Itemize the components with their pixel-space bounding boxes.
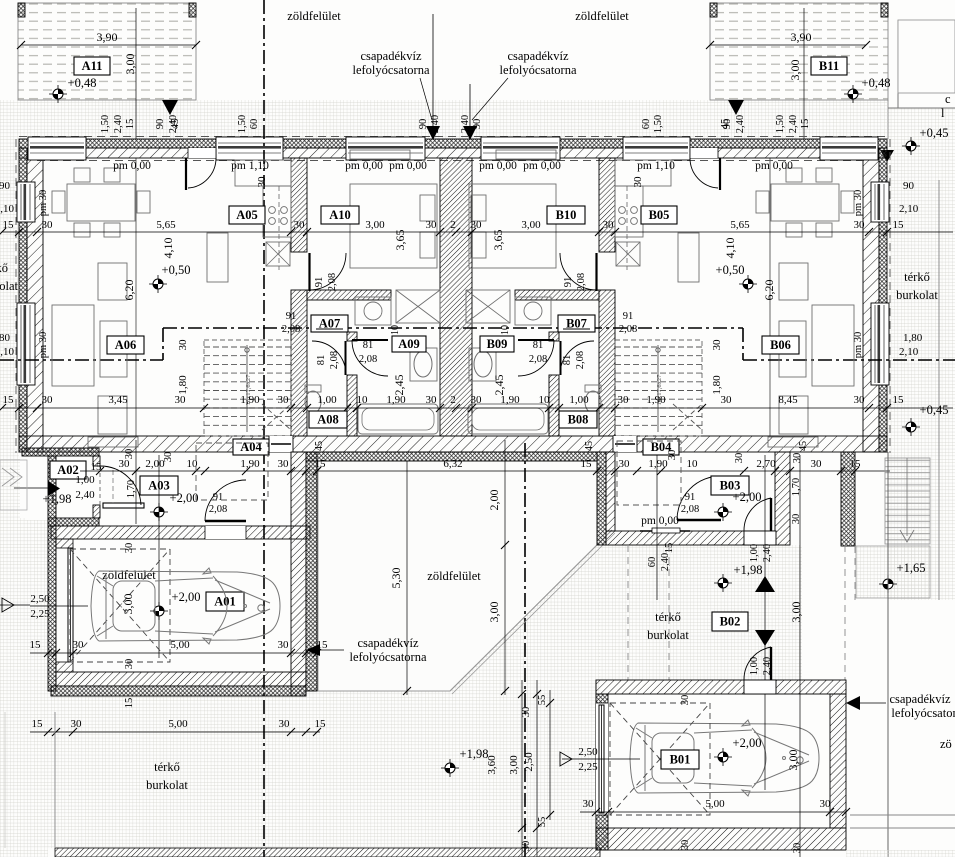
- window top wall A: [28, 137, 86, 160]
- car in garage B01: [630, 720, 819, 796]
- svg-text:2,08: 2,08: [359, 354, 377, 365]
- room label A03: [140, 476, 178, 495]
- svg-text:15: 15: [893, 219, 905, 231]
- room label B08: [559, 411, 597, 428]
- svg-text:55: 55: [537, 695, 548, 706]
- garage A door: [68, 548, 73, 662]
- room label B02: [712, 612, 748, 631]
- svg-text:2,50: 2,50: [30, 593, 50, 605]
- survey marker B01: [714, 748, 732, 766]
- stove A05: [269, 207, 276, 214]
- svg-text:2,45: 2,45: [392, 375, 406, 396]
- svg-text:3,00: 3,00: [487, 602, 501, 623]
- svg-text:1,90: 1,90: [646, 394, 666, 406]
- svg-text:30: 30: [294, 219, 306, 231]
- svg-text:45: 45: [584, 441, 595, 451]
- svg-text:pm 30: pm 30: [853, 332, 864, 359]
- garage B door: [596, 703, 608, 815]
- dim row garage B: [580, 798, 850, 816]
- svg-text:B01: B01: [670, 753, 691, 767]
- survey marker B02: [714, 574, 732, 592]
- svg-text:30: 30: [854, 219, 866, 231]
- svg-text:30: 30: [583, 798, 595, 810]
- svg-text:30: 30: [256, 176, 268, 188]
- svg-text:2,08: 2,08: [619, 324, 637, 335]
- svg-text:2,10: 2,10: [899, 203, 919, 215]
- overhang dashed line A02: [112, 470, 114, 503]
- svg-text:3,00: 3,00: [365, 219, 385, 231]
- svg-text:2,40: 2,40: [430, 115, 441, 133]
- svg-text:90: 90: [155, 119, 166, 130]
- window top wall B: [623, 137, 690, 160]
- svg-text:B05: B05: [649, 208, 670, 222]
- dim row courtyard: [313, 458, 890, 475]
- svg-text:1,00: 1,00: [75, 474, 95, 486]
- paved terrace B02: [599, 545, 802, 680]
- svg-text:1,00: 1,00: [317, 394, 337, 406]
- svg-text:15: 15: [32, 718, 44, 730]
- svg-text:30: 30: [820, 798, 832, 810]
- svg-text:lefolyócsatorna: lefolyócsatorna: [499, 63, 577, 77]
- svg-text:30: 30: [734, 453, 745, 464]
- svg-text:30: 30: [278, 394, 290, 406]
- svg-text:olat: olat: [0, 279, 19, 293]
- drain line B: [469, 84, 471, 139]
- svg-text:91: 91: [685, 492, 696, 503]
- svg-text:60: 60: [647, 557, 658, 568]
- terrace axis line B: [803, 8, 805, 139]
- svg-text:30: 30: [124, 659, 135, 670]
- leader line right drain: [472, 78, 508, 120]
- overhang dashed below top wall: [37, 160, 869, 162]
- svg-text:pm 0,00: pm 0,00: [113, 160, 151, 172]
- svg-text:2,00: 2,00: [487, 490, 501, 511]
- B block bottom wall: [606, 531, 775, 545]
- shower cross B09: [466, 290, 510, 323]
- washbasin B09: [474, 351, 492, 377]
- svg-text:+0,48: +0,48: [68, 76, 97, 90]
- svg-text:30: 30: [792, 843, 803, 854]
- survey marker B06: [739, 275, 757, 293]
- svg-text:pm 0,00: pm 0,00: [345, 160, 383, 172]
- svg-text:+1,98: +1,98: [43, 492, 72, 506]
- room label B07: [558, 315, 595, 332]
- svg-text:+0,50: +0,50: [162, 263, 191, 277]
- dimension row lower: [0, 394, 953, 412]
- room label B09: [480, 336, 514, 352]
- staircase B: [615, 340, 702, 436]
- svg-text:A06: A06: [115, 338, 137, 352]
- B block left wall: [597, 452, 606, 545]
- svg-text:+2,00: +2,00: [733, 736, 762, 750]
- svg-text:91: 91: [286, 311, 297, 322]
- entry arrow terrace A: [162, 100, 178, 115]
- svg-text:81: 81: [562, 355, 573, 366]
- room label A11: [74, 57, 110, 75]
- room label A05: [229, 206, 265, 224]
- diag boundary courtyard: [450, 530, 612, 691]
- garage door flag A: [2, 598, 14, 612]
- svg-text:45: 45: [798, 441, 809, 451]
- svg-text:2,08: 2,08: [575, 351, 586, 369]
- svg-text:1,70: 1,70: [126, 480, 137, 498]
- section line horizontal left: [0, 359, 163, 361]
- window right wall 1: [871, 182, 889, 222]
- cabinet X A05: [266, 242, 290, 266]
- garage A right wall: [291, 452, 306, 696]
- dim 2,00 3,00: [504, 440, 506, 695]
- svg-text:30: 30: [632, 176, 644, 188]
- svg-text:1,80: 1,80: [903, 332, 923, 344]
- svg-text:91: 91: [213, 492, 224, 503]
- svg-text:A01: A01: [214, 595, 236, 609]
- svg-text:90: 90: [0, 180, 11, 192]
- svg-text:A09: A09: [398, 337, 420, 351]
- survey marker A01: [150, 602, 168, 620]
- door A08: [345, 341, 347, 375]
- dim 5,30: [406, 461, 408, 695]
- svg-text:+2,00: +2,00: [733, 490, 762, 504]
- furniture unit B: [466, 150, 854, 447]
- drain line A: [432, 14, 434, 139]
- svg-text:1,80: 1,80: [0, 332, 11, 344]
- svg-text:81: 81: [533, 340, 544, 351]
- door B09: [518, 339, 554, 341]
- survey marker bottom: [441, 759, 459, 777]
- interior wall A2: [307, 290, 391, 300]
- window top wall A: [216, 137, 283, 160]
- svg-text:1,50: 1,50: [237, 115, 248, 133]
- paved area below garage A: [48, 693, 597, 848]
- washer drum A: [364, 302, 382, 320]
- svg-text:2: 2: [450, 394, 456, 406]
- svg-text:3,00: 3,00: [789, 602, 803, 623]
- window right wall 2: [871, 303, 889, 385]
- svg-text:15: 15: [30, 639, 42, 651]
- svg-text:térkő: térkő: [655, 610, 681, 624]
- svg-text:pm 30: pm 30: [853, 190, 864, 217]
- paved area top band: [19, 100, 887, 139]
- svg-text:zöldfelület: zöldfelület: [102, 568, 156, 582]
- interior wall A0: [291, 158, 307, 252]
- window left wall 2: [17, 303, 35, 385]
- svg-text:pm 0,00: pm 0,00: [389, 160, 427, 172]
- svg-text:B11: B11: [819, 59, 839, 73]
- room label A09: [392, 336, 426, 352]
- furniture unit A: [52, 150, 440, 447]
- interior wall B2: [515, 290, 599, 300]
- toilet B08: [585, 391, 601, 413]
- garage B door axis: [562, 758, 640, 760]
- window top wall B: [481, 137, 560, 160]
- interior wall B4: [549, 375, 559, 436]
- svg-text:2,08: 2,08: [209, 504, 227, 515]
- door B10: [595, 253, 597, 291]
- svg-text:5,65: 5,65: [156, 219, 176, 231]
- survey marker B03: [714, 503, 732, 521]
- svg-text:+2,00: +2,00: [170, 491, 199, 505]
- svg-text:1,00: 1,00: [749, 544, 760, 562]
- svg-text:2,40: 2,40: [75, 489, 95, 501]
- svg-text:kő: kő: [0, 261, 8, 275]
- svg-text:15: 15: [125, 119, 136, 130]
- svg-text:térkő: térkő: [904, 270, 930, 284]
- svg-text:burkolat: burkolat: [146, 778, 188, 792]
- svg-text:3,90: 3,90: [791, 30, 812, 44]
- survey marker A03: [150, 503, 168, 521]
- dashed overhang B03: [617, 441, 681, 505]
- svg-text:burkolat: burkolat: [896, 288, 938, 302]
- kitchen dashed edge B05: [626, 186, 628, 270]
- leader line left drain: [420, 78, 432, 120]
- door B02 to B01: [744, 680, 776, 694]
- overhang dashed left: [15, 139, 17, 453]
- svg-text:10: 10: [500, 325, 511, 335]
- interior wall B0: [599, 158, 615, 252]
- arrow down B02: [755, 630, 775, 646]
- white strip left of porch: [27, 458, 48, 520]
- garage A bottom wall: [56, 672, 306, 686]
- window top wall B: [820, 137, 878, 160]
- svg-text:A11: A11: [82, 59, 103, 73]
- outer wall right structure: [863, 148, 879, 452]
- svg-text:30: 30: [471, 394, 483, 406]
- outer wall right insulation: [879, 148, 887, 452]
- svg-text:pm 0,00: pm 0,00: [641, 515, 679, 527]
- garage B bottom wall: [596, 828, 846, 850]
- svg-text:2,10: 2,10: [0, 346, 15, 358]
- drain arrow A: [426, 126, 440, 140]
- svg-text:3,65: 3,65: [491, 230, 505, 251]
- porch interior: [20, 456, 93, 518]
- svg-text:A10: A10: [329, 208, 351, 222]
- bathtub A08: [358, 404, 438, 434]
- svg-text:térkő: térkő: [154, 760, 180, 774]
- svg-text:2,08: 2,08: [329, 351, 340, 369]
- svg-text:+1,98: +1,98: [734, 563, 763, 577]
- svg-text:zöldfelület: zöldfelület: [575, 9, 629, 23]
- svg-text:15: 15: [800, 119, 811, 130]
- svg-text:30: 30: [854, 394, 866, 406]
- svg-text:2,10: 2,10: [899, 346, 919, 358]
- svg-text:5,00: 5,00: [168, 718, 188, 730]
- svg-text:30: 30: [792, 453, 803, 464]
- room label B01: [661, 750, 699, 769]
- drain arrow B: [463, 126, 477, 140]
- entry arrow A02: [48, 481, 60, 496]
- svg-text:A05: A05: [236, 208, 258, 222]
- door A10: [308, 253, 310, 291]
- outer wall left insulation: [19, 148, 27, 452]
- garage B left wall: [596, 694, 608, 850]
- room label A04: [233, 439, 269, 455]
- svg-text:1,90: 1,90: [240, 394, 260, 406]
- svg-text:30: 30: [73, 639, 85, 651]
- window left wall 1: [17, 182, 35, 222]
- svg-text:15: 15: [581, 458, 593, 470]
- svg-text:30: 30: [426, 394, 438, 406]
- bathtub B08: [468, 404, 548, 434]
- terrace A11 dimension 3,90: [17, 30, 200, 49]
- room label A02: [50, 461, 86, 479]
- room label A10: [321, 206, 359, 224]
- svg-text:30: 30: [177, 339, 189, 351]
- svg-text:30: 30: [278, 458, 290, 470]
- svg-text:2,45: 2,45: [492, 375, 506, 396]
- front door A: [188, 148, 216, 158]
- paved landing right: [856, 546, 930, 598]
- svg-text:6,20: 6,20: [762, 280, 776, 301]
- svg-text:5,00: 5,00: [705, 798, 725, 810]
- site wall bottom: [55, 848, 600, 857]
- dashed lines B02: [627, 545, 629, 680]
- svg-text:B10: B10: [556, 208, 577, 222]
- stove B05: [619, 207, 626, 214]
- boundary line right: [887, 452, 889, 857]
- door B03 to B02: [744, 531, 776, 545]
- room label A06: [107, 336, 144, 354]
- svg-text:5,30: 5,30: [389, 568, 403, 589]
- svg-text:2,25: 2,25: [30, 608, 50, 620]
- svg-text:2,40: 2,40: [460, 115, 471, 133]
- outdoor steps right: [885, 458, 930, 544]
- leader garage B: [858, 702, 886, 704]
- door A03 garage opening: [205, 526, 246, 539]
- dim 3,00 line B02: [799, 455, 801, 857]
- dashed overhang A03: [196, 443, 268, 500]
- svg-text:81: 81: [363, 340, 374, 351]
- svg-text:90: 90: [903, 180, 915, 192]
- room label B10: [547, 206, 585, 224]
- section line horizontal right: [743, 359, 955, 361]
- svg-text:B06: B06: [770, 338, 791, 352]
- paved area mid bottom: [306, 461, 600, 693]
- svg-text:3,00: 3,00: [508, 755, 520, 775]
- axis line living B: [769, 158, 771, 436]
- svg-text:pm 30: pm 30: [38, 190, 49, 217]
- paved area right side: [888, 108, 955, 600]
- svg-text:91: 91: [314, 277, 325, 288]
- porch door wall: [93, 456, 100, 466]
- B outer wall right: [841, 452, 855, 546]
- section line horizontal middle: [163, 327, 743, 329]
- svg-text:30: 30: [278, 639, 290, 651]
- svg-text:1,50: 1,50: [100, 115, 111, 133]
- terrace axis line A: [135, 8, 137, 139]
- overhang dashed top: [19, 136, 887, 138]
- garage A door jambs: [56, 539, 73, 548]
- survey marker A06: [149, 275, 167, 293]
- survey marker B11: [844, 85, 862, 103]
- svg-text:15: 15: [3, 394, 15, 406]
- svg-text:pm 30: pm 30: [38, 332, 49, 359]
- svg-text:91: 91: [623, 311, 634, 322]
- svg-text:2,40: 2,40: [762, 544, 773, 562]
- room label B11: [811, 57, 847, 75]
- svg-text:B02: B02: [720, 615, 741, 629]
- svg-text:3,00: 3,00: [121, 594, 135, 615]
- svg-text:8,45: 8,45: [778, 394, 798, 406]
- svg-text:30: 30: [426, 219, 438, 231]
- svg-text:30: 30: [667, 450, 678, 461]
- paved area left strip: [0, 100, 19, 458]
- svg-text:2,10: 2,10: [0, 203, 15, 215]
- survey marker right low: [902, 418, 920, 436]
- svg-text:1,80: 1,80: [711, 375, 723, 395]
- car in garage A01: [91, 568, 280, 644]
- B02 door axis: [764, 455, 766, 790]
- svg-text:81: 81: [316, 355, 327, 366]
- svg-text:60: 60: [641, 119, 652, 130]
- svg-text:5,65: 5,65: [730, 219, 750, 231]
- roof terrace B11: [710, 3, 888, 100]
- svg-text:B09: B09: [487, 337, 508, 351]
- svg-text:1,80: 1,80: [177, 375, 189, 395]
- door B04 to B03: [677, 519, 721, 521]
- svg-text:6,20: 6,20: [122, 280, 136, 301]
- svg-text:45: 45: [314, 441, 325, 451]
- room label B06: [762, 336, 799, 354]
- svg-text:c: c: [945, 92, 951, 106]
- svg-text:6,32: 6,32: [443, 458, 462, 470]
- porch left wall: [48, 456, 56, 526]
- svg-text:30: 30: [521, 707, 532, 718]
- svg-text:30: 30: [175, 394, 187, 406]
- garage B right wall: [830, 694, 846, 828]
- svg-text:3,65: 3,65: [393, 230, 407, 251]
- room label B03: [711, 476, 749, 495]
- room label A08: [309, 411, 347, 428]
- svg-text:30: 30: [618, 394, 630, 406]
- svg-text:91: 91: [563, 277, 574, 288]
- garage A clearance box: [70, 549, 170, 662]
- arrow down right wall: [880, 150, 894, 162]
- svg-text:burkolat: burkolat: [647, 628, 689, 642]
- svg-text:30: 30: [42, 219, 54, 231]
- svg-text:3,90: 3,90: [97, 30, 118, 44]
- axis line A02 x136: [135, 440, 137, 524]
- svg-text:15: 15: [893, 394, 905, 406]
- garage B clearance box: [610, 703, 710, 815]
- svg-text:+0,45: +0,45: [920, 403, 949, 417]
- interior wall B1: [599, 290, 615, 436]
- svg-text:10: 10: [357, 394, 369, 406]
- svg-text:pm 1,10: pm 1,10: [231, 160, 269, 172]
- svg-text:zöldfelület: zöldfelület: [287, 9, 341, 23]
- svg-text:2,50: 2,50: [578, 746, 598, 758]
- dim row garage A: [30, 639, 329, 657]
- svg-text:3,00: 3,00: [521, 219, 541, 231]
- svg-text:45: 45: [170, 119, 181, 130]
- svg-text:2,08: 2,08: [327, 273, 338, 291]
- room label A07: [311, 315, 348, 332]
- svg-text:3,45: 3,45: [108, 394, 128, 406]
- svg-text:60: 60: [249, 119, 260, 130]
- door A09: [352, 339, 388, 341]
- svg-text:1,90: 1,90: [648, 458, 668, 470]
- svg-text:2: 2: [450, 219, 456, 231]
- dashed boundary right: [854, 546, 856, 600]
- svg-text:2,08: 2,08: [529, 354, 547, 365]
- svg-text:2,50: 2,50: [523, 752, 535, 772]
- section line vertical middle: [524, 443, 526, 857]
- svg-text:30: 30: [124, 449, 135, 460]
- survey marker right top: [902, 137, 920, 155]
- outer wall top insulation: [19, 139, 887, 148]
- section line elbow right: [742, 328, 744, 360]
- svg-text:l: l: [941, 106, 945, 120]
- svg-text:1,50: 1,50: [653, 115, 664, 133]
